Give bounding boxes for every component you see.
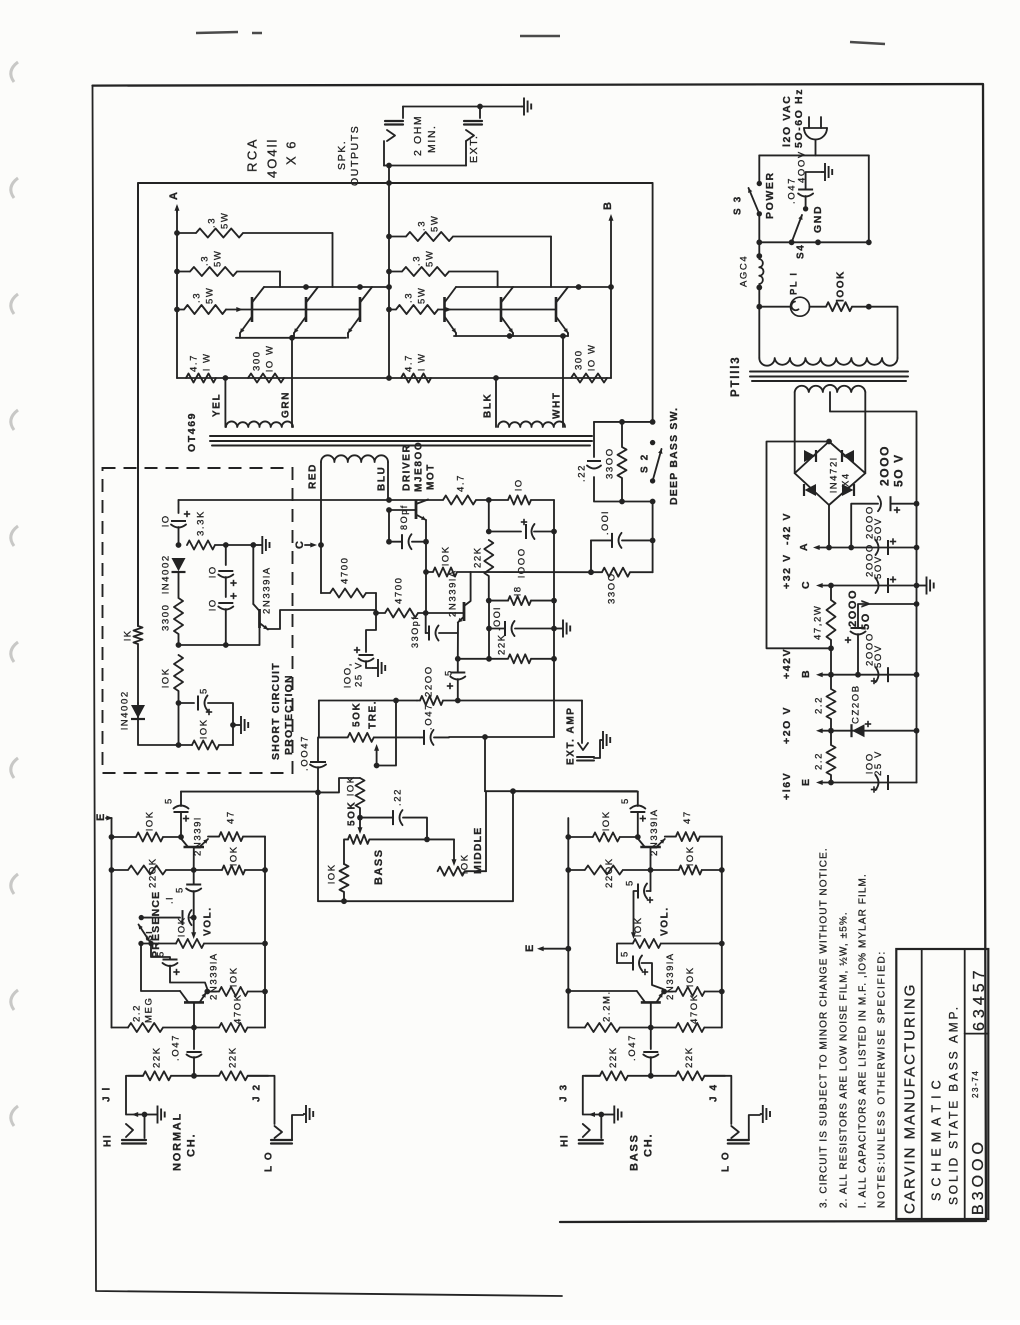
label 2000 no1 (877, 445, 891, 486)
jack EXT output (464, 107, 482, 166)
resistor 10K scp2 (192, 741, 233, 750)
wiper BASS (358, 818, 363, 834)
svg-text:.OOl: .OOl (492, 606, 502, 631)
label PT1113 (730, 356, 742, 397)
resistor 22K ch2 lo (651, 1071, 725, 1080)
junction ch2 bus (565, 867, 571, 873)
transistor Q6 output bank2 (556, 287, 568, 333)
capacitor 10 b (218, 571, 236, 586)
label 3300 fb (606, 572, 617, 604)
wire ch1 right bus low (264, 992, 266, 1028)
dashed box short circuit protection (103, 468, 293, 773)
svg-text:47: 47 (225, 810, 236, 824)
wire ch1 lo gnd branch (292, 1115, 303, 1140)
ground ch1 hi (145, 1106, 165, 1124)
label 50V no5 (873, 644, 884, 668)
label 22K hi ch1 (151, 1046, 162, 1068)
label ch2 name1 (628, 1133, 640, 1171)
wire ch2 bottom row corner (568, 1027, 585, 1029)
label 10K t2 (326, 863, 337, 884)
junction right bus (551, 626, 557, 632)
label +32V (781, 553, 793, 589)
node C (318, 542, 324, 548)
potentiometer 10K VOL ch1 (176, 939, 265, 948)
wire ch1 hi jack lead (126, 1076, 145, 1117)
svg-text:lOOK: lOOK (836, 270, 847, 302)
label 300 (b1) (251, 350, 262, 371)
junction ch1 right bus (262, 941, 268, 947)
label ch1 jlo (252, 1083, 263, 1102)
wire cap to collector node ch2 (637, 812, 639, 837)
svg-text:.3: .3 (206, 217, 217, 228)
label 2 OHM (412, 115, 424, 156)
resistor 10K driver (426, 568, 471, 577)
junction ch2 collector bus (565, 988, 571, 994)
svg-text:5W: 5W (204, 287, 215, 304)
wire emitter drops bank2 (456, 333, 568, 336)
svg-text:4O4ll: 4O4ll (265, 138, 280, 178)
resistor 22K ch1 hi (128, 1071, 194, 1080)
label 2000 no3 (864, 543, 875, 577)
label 1N4002 lower (119, 690, 130, 730)
label 10K middle (459, 853, 470, 874)
wire predriver emitter down (457, 623, 459, 659)
label 5 c ch2 (619, 950, 630, 957)
transistor 2N3391A ch2 Q2 (637, 991, 663, 1028)
label X4 (840, 472, 851, 487)
wire ch2 cap5c to emitter (617, 963, 663, 989)
svg-text:GRN: GRN (281, 391, 292, 418)
label 2000 no2 (864, 505, 875, 539)
label 25V psu (873, 750, 884, 776)
resistor 10K ch1 col (112, 833, 179, 842)
label 10W (b1) (264, 344, 275, 372)
wire R1b down (550, 237, 552, 288)
junction AC row (756, 239, 762, 245)
svg-text:22K: 22K (608, 1046, 619, 1068)
svg-text:SOLID STATE BASS AMP.: SOLID STATE BASS AMP. (946, 1004, 960, 1205)
label 120 VAC (781, 95, 793, 147)
transformer PT1113 primary (759, 358, 897, 366)
svg-text:22OK: 22OK (147, 857, 158, 888)
label +16V (781, 772, 793, 800)
svg-text:.O47: .O47 (170, 1034, 181, 1061)
svg-text:NOTES:UNLESS OTHERWISE SPECIFI: NOTES:UNLESS OTHERWISE SPECIFIED: (877, 950, 888, 1208)
junction S2 bottom (619, 499, 625, 505)
svg-text:22K: 22K (227, 1046, 238, 1068)
AC plug 120VAC (804, 117, 827, 155)
wire ch1 lo jack lead (248, 1076, 275, 1124)
ground SCP top (253, 536, 269, 554)
label 2N339lA Q1 (649, 808, 660, 856)
label 470K ch1 (232, 993, 243, 1024)
capacitor 5 ch1 b (186, 885, 201, 892)
svg-text:J 3: J 3 (558, 1083, 569, 1102)
node SCP mid (176, 642, 182, 648)
transformer OT469 core (210, 436, 592, 446)
junction ch1 collector (178, 834, 184, 840)
jack J 3 HI (579, 1115, 603, 1144)
junction bank2 bus (386, 269, 392, 275)
transistor Q3 output bank1 (348, 287, 372, 333)
junction bass wiper (357, 815, 363, 821)
transistor MJE800 driver (389, 500, 428, 521)
wire speaker tips (384, 165, 466, 167)
label 22K lo ch2 (684, 1046, 695, 1068)
svg-text:.OO47: .OO47 (299, 735, 310, 771)
label 2N3391A SCP (261, 566, 272, 614)
label .3 (4) (416, 220, 427, 231)
wire 5cap to gnd corner (208, 703, 233, 725)
svg-text:3.3K: 3.3K (195, 510, 206, 536)
junction gnd/collector (250, 542, 256, 548)
ground speaker (521, 98, 531, 116)
switch S4 GND (792, 206, 809, 242)
label 22K hi ch2 (608, 1046, 619, 1068)
label 50V no2 (873, 517, 884, 541)
label 22K lo ch1 (227, 1046, 238, 1068)
svg-text:S4: S4 (796, 244, 807, 259)
junction ch1 Q2 emitter (204, 989, 210, 995)
svg-text:4700: 4700 (339, 556, 350, 584)
junction bank2 bus (386, 180, 392, 186)
label SHORT CIRCUIT (270, 662, 282, 760)
capacitor 2000 50V no2 (876, 538, 897, 555)
junction tone feed (482, 734, 488, 740)
svg-text:4.7: 4.7 (455, 474, 466, 492)
resistor 4.7 1W bank2 (401, 374, 431, 383)
label 10K scp2 (198, 718, 209, 739)
label EXT. AMP (566, 706, 577, 765)
svg-text:.3: .3 (403, 292, 414, 303)
plus CZ20B (865, 721, 871, 727)
wire ch1 47 down (264, 837, 266, 870)
svg-text:5OK: 5OK (352, 702, 363, 727)
svg-text:l W: l W (416, 352, 427, 371)
svg-text:X 6: X 6 (284, 139, 299, 165)
svg-text:47OK: 47OK (232, 993, 243, 1024)
net +20V arrow (816, 728, 917, 733)
svg-text:lOK: lOK (459, 853, 470, 874)
node SCP low (176, 700, 182, 706)
svg-text:47: 47 (682, 810, 693, 824)
junction t2 bottom (341, 898, 347, 904)
wire BLU down to 80pf (388, 510, 390, 542)
label 5W (2) (212, 250, 223, 267)
transistor Q4 output bank2 (445, 287, 457, 333)
resistor 10K ch2 fb (651, 866, 722, 875)
bridge rectifier 1N4721 X4 (795, 442, 866, 506)
wire cap10a down (178, 527, 180, 545)
label AGC 4 (738, 255, 749, 287)
junction collector bus (303, 284, 309, 290)
capacitor 100 25V psu (871, 775, 888, 793)
label 5W (3) (204, 287, 215, 304)
svg-text:5OV: 5OV (873, 517, 884, 541)
junction emitter taps (423, 539, 429, 545)
svg-text:2. ALL RESISTORS ARE LOW NOISE: 2. ALL RESISTORS ARE LOW NOISE FILM, ½W,… (839, 911, 850, 1208)
svg-text:C: C (294, 539, 306, 549)
wiper TRE (374, 744, 379, 766)
wire 330pf leads (426, 632, 458, 634)
svg-text:MIDDLE: MIDDLE (472, 827, 484, 874)
wire S3 down (758, 214, 760, 256)
svg-text:VOL.: VOL. (203, 906, 214, 936)
svg-text:2OOO: 2OOO (877, 445, 891, 486)
label 1W (b2) (416, 352, 427, 371)
svg-text:DEEP BASS SW.: DEEP BASS SW. (668, 407, 680, 505)
label 2200 (423, 665, 434, 697)
label SPK. (336, 140, 348, 170)
capacitor 5 ch2 b (638, 884, 653, 904)
svg-text:33Opf: 33Opf (410, 615, 420, 648)
wire .22 branch (594, 422, 653, 502)
junction 18 left (486, 598, 492, 604)
svg-text:lN472l: lN472l (828, 456, 839, 493)
junction bank2 emitter bus (560, 333, 566, 339)
note 0 (877, 950, 888, 1208)
resistor 10K ch1 fb (194, 866, 265, 875)
label OT469 (186, 412, 198, 452)
label RED (308, 463, 319, 489)
wire ch2 cap5b to wiper (631, 891, 651, 939)
label MOT (426, 463, 437, 490)
wire speaker top rail (403, 106, 521, 108)
svg-text:lOK: lOK (198, 718, 209, 739)
resistor ch2 meg (585, 1023, 651, 1032)
junction 0047/wiper (374, 763, 380, 769)
svg-text:lOO,: lOO, (342, 662, 353, 688)
svg-text:8Opf: 8Opf (399, 504, 409, 530)
svg-text:47OK: 47OK (689, 993, 700, 1024)
label 4.7 driver (455, 474, 466, 492)
label PROTECTION (283, 674, 295, 755)
jack J 2 LO (271, 1126, 292, 1144)
svg-text:5: 5 (624, 879, 635, 886)
label 22K b (496, 633, 507, 655)
svg-text:MEG: MEG (143, 997, 154, 1023)
wire bank1 collector bus (264, 286, 389, 288)
label 10K vol ch2 (633, 916, 644, 937)
wire ext amp gnd (594, 740, 600, 758)
svg-text:4.7: 4.7 (403, 354, 414, 372)
label S4 (796, 244, 807, 259)
junction 1000 left (486, 529, 492, 535)
junction PL1 row (756, 304, 762, 310)
junction ch2 feed (510, 788, 516, 794)
svg-text:lO: lO (160, 514, 171, 527)
node driver base feed (373, 610, 379, 616)
resistor 4700 b (376, 609, 426, 618)
label 50V no4 (860, 599, 872, 630)
label BLU (377, 466, 388, 491)
svg-text:E: E (95, 812, 107, 821)
svg-text:Hl: Hl (559, 1134, 570, 1147)
ground ch2 lo (760, 1105, 770, 1123)
wire ch1 047 down (193, 1057, 195, 1076)
ground ch2 hi (601, 1106, 621, 1124)
wire AC node row (759, 241, 869, 243)
wire 100uF to gnd (366, 661, 372, 668)
junction 001/22K (486, 656, 492, 662)
label ch2 name2 (642, 1133, 654, 1157)
wire ch1 vol row left (141, 943, 176, 945)
junction S2 bottom (650, 499, 656, 505)
junction 20V rail (828, 728, 834, 734)
svg-text:B3OOO: B3OOO (970, 1138, 987, 1215)
label 10K col ch2 (601, 810, 612, 831)
capacitor .1 presence (183, 910, 192, 925)
junction bank2 bus (386, 375, 392, 381)
svg-text:OUTPUTS: OUTPUTS (349, 125, 361, 186)
wire 5cap row (179, 702, 195, 704)
capacitor .22 s2 (587, 461, 601, 469)
junction TRE wiper feed (393, 698, 399, 704)
label 80pf (399, 504, 409, 530)
wire ch1 base to 5b (193, 870, 195, 885)
wire secondary right to bridge (864, 392, 866, 473)
wire ch2 rail (513, 790, 637, 792)
wire ch2 left bus (567, 818, 569, 1028)
label .001 driver (492, 606, 502, 631)
svg-text:25 V.: 25 V. (353, 658, 364, 687)
resistor 18 (508, 596, 531, 605)
resistor 22K b (489, 654, 554, 663)
label VOL ch2 (659, 906, 670, 936)
svg-text:lOK: lOK (228, 845, 239, 866)
wire t1 top to node (318, 778, 360, 792)
svg-text:A: A (168, 190, 180, 200)
svg-text:lOK: lOK (685, 845, 696, 866)
junction 80pf left (386, 539, 392, 545)
svg-text:BASS: BASS (373, 848, 385, 885)
svg-text:5W: 5W (416, 287, 427, 304)
wire ch2 base down (650, 1028, 652, 1050)
label 4700 b (393, 576, 404, 604)
label MEG ch1 (143, 997, 154, 1023)
node SPK junction (386, 163, 392, 169)
junction AC row (789, 239, 795, 245)
svg-text:2N339l: 2N339l (192, 816, 203, 856)
svg-text:lO: lO (207, 565, 218, 578)
net B label (602, 200, 614, 210)
wire ch2 right bus low (721, 992, 723, 1028)
ground psu (917, 577, 934, 595)
svg-text:RCA: RCA (245, 137, 260, 172)
label 470K ch2 (689, 993, 700, 1024)
wire 2200 row right (458, 700, 582, 702)
wire cap10b-c (225, 577, 227, 597)
wire middle right leg (485, 791, 487, 871)
junction bank2 collector bus (576, 284, 582, 290)
svg-text:.3: .3 (199, 255, 210, 266)
net C label psu (800, 580, 812, 589)
wire 22Kb row (458, 658, 489, 660)
resistor 22K ch2 hi (585, 1071, 651, 1080)
label BASS pot (373, 848, 385, 885)
svg-text:PL l: PL l (788, 271, 799, 295)
net E arrow ch2 (537, 946, 568, 951)
svg-text:lOOO: lOOO (516, 547, 527, 578)
net E arrow psu (816, 780, 917, 785)
wire ch2 cap5c top (617, 944, 633, 964)
junction B rail (828, 672, 834, 678)
label H1 ch1 (103, 1134, 114, 1147)
wiper MIDDLE (452, 839, 457, 866)
label 10 c (207, 598, 218, 611)
junction .22/middle row (424, 837, 430, 843)
junction BLK (493, 375, 499, 381)
label DRIVER (402, 444, 413, 491)
wire S2 top rail (594, 183, 653, 422)
wire bank2 feed up (610, 287, 612, 378)
svg-text:2.2: 2.2 (813, 696, 824, 714)
junction ch1 input row (191, 1073, 197, 1079)
label .3 (1) (206, 217, 217, 228)
svg-text:CH.: CH. (186, 1133, 198, 1157)
junction ch2 base (648, 867, 654, 873)
wire bridge bottom to A rail (828, 505, 830, 548)
svg-text:+2O V: +2O V (781, 706, 793, 744)
junction ch2 input row (648, 1073, 654, 1079)
label 10K e ch1 (228, 966, 239, 987)
junction GRN riser (289, 335, 295, 341)
ground ext amp (600, 731, 610, 749)
label .047 ch1 (170, 1034, 181, 1061)
wire rail 500 (179, 499, 428, 501)
capacitor 5 ch2 input (630, 806, 646, 822)
label .3 (5) (411, 255, 422, 266)
label .3 (6) (403, 292, 414, 303)
label 50K tre (352, 702, 363, 727)
title CARVIN MANUFACTURING (901, 983, 918, 1214)
resistor 47 ch2 (665, 832, 722, 841)
potentiometer 10K VOL ch2 (633, 939, 722, 948)
wire TRE row corner (318, 701, 320, 738)
junction scp gnd (230, 722, 236, 728)
capacitor 10 a (171, 511, 190, 528)
label 5 driver (443, 669, 454, 676)
svg-text:E: E (800, 777, 812, 786)
label 5 a ch1 (163, 797, 174, 804)
svg-text:EXT. AMP: EXT. AMP (566, 706, 577, 765)
svg-text:22OK: 22OK (604, 857, 615, 888)
wire YEL riser (224, 378, 226, 427)
label 2N339l Q1 (192, 816, 203, 856)
resistor 3300 s2 (618, 422, 627, 502)
svg-text:22K: 22K (151, 1046, 162, 1068)
label 5W (1) (219, 212, 230, 229)
wire 2200 row left (319, 700, 417, 702)
svg-text:YEL: YEL (212, 393, 223, 417)
wire 5 cap leads (457, 659, 459, 701)
junction emitter taps (423, 569, 429, 575)
svg-text:lO: lO (207, 598, 218, 611)
junction AC row (866, 239, 872, 245)
label .0047 (299, 735, 310, 771)
svg-text:PTlll3: PTlll3 (730, 356, 742, 397)
label 10 driver (513, 478, 524, 491)
wire ch1 rail stub (180, 792, 182, 806)
svg-text:3300: 3300 (160, 603, 171, 631)
junction ch1 base (191, 867, 197, 873)
svg-text:63457: 63457 (971, 967, 988, 1032)
label 2N3391A ch1 Q2 (208, 952, 219, 1000)
wire bass left leg (344, 839, 348, 864)
junction ch2 right bus top (719, 867, 725, 873)
svg-text:2.2M.: 2.2M. (601, 990, 612, 1022)
label 47 ch2 (682, 810, 693, 824)
